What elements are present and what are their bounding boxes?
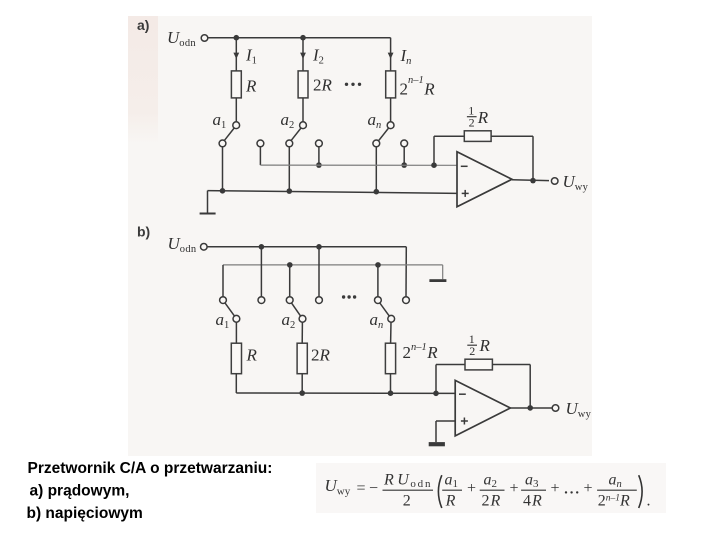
switch b2 throw left [286, 297, 293, 304]
svg-text:R: R [246, 346, 258, 365]
dots ellipsis (circuit b) [342, 295, 345, 298]
ground (circuit b top right) [429, 279, 446, 282]
switch bn throw left [375, 297, 382, 304]
svg-text:a): a) [137, 17, 149, 33]
wire b2 resistor to bus [301, 374, 303, 393]
switch b1 pole [233, 315, 240, 322]
node bn-bus [388, 390, 394, 396]
scan background [128, 16, 592, 456]
switch a1 pole contact [233, 122, 240, 129]
node a2-ground-bus [287, 188, 293, 194]
svg-text:+: + [551, 480, 560, 497]
fraction a1/R bar [442, 489, 462, 491]
node rail-branch2 [300, 35, 306, 41]
big close paren [639, 475, 642, 508]
switch b1 lever [225, 303, 235, 316]
switch a2 throw right [316, 140, 323, 147]
svg-text:=: = [357, 480, 366, 497]
svg-text:2: 2 [469, 115, 475, 129]
wire branch2 to switch [302, 98, 304, 122]
op-amp (circuit b) [455, 380, 510, 436]
wire summing bus (circuit b) [236, 392, 455, 394]
terminal Uwy (b) [552, 405, 559, 412]
resistor 2^(n-1)R (branchN b) [385, 343, 395, 374]
arrow In [388, 53, 394, 59]
wire bn pole to resistor [390, 322, 392, 343]
wire output (b) [510, 407, 552, 409]
big open paren [438, 475, 441, 508]
svg-text:+: + [584, 480, 593, 497]
switch bn pole [388, 315, 395, 322]
switch an throw right [401, 140, 408, 147]
wire branchN to switch [390, 98, 392, 122]
node a1-ground-bus [220, 188, 226, 194]
plus marker (b) [461, 420, 468, 422]
wire b1 resistor to bus [235, 374, 237, 393]
ground (op-amp b) [429, 442, 445, 446]
minus marker (a) [461, 165, 468, 167]
wire branch1 drop [235, 38, 237, 71]
node rail2-bn [375, 262, 381, 268]
terminal Uodn (circuit b) [201, 244, 208, 251]
svg-text:−: − [369, 480, 378, 497]
switch b1 throw left [220, 297, 227, 304]
switch a1 throw left [219, 140, 226, 147]
wire ground rail (circuit b) [223, 264, 443, 266]
resistor half-R feedback (b) [465, 359, 492, 370]
wire a1 right throw stub [259, 147, 261, 166]
arrow I2 [300, 53, 306, 59]
fraction a2/2R bar [480, 489, 505, 491]
wire plus input drop (b) [435, 421, 437, 442]
node feedback-output (b) [527, 405, 533, 411]
switch b2 throw right [316, 297, 323, 304]
node b2-bus [299, 390, 305, 396]
node rail2-b2 [287, 262, 293, 268]
switch bn throw right [403, 297, 410, 304]
resistor R (branch1 a) [231, 71, 241, 98]
switch b1 throw right [258, 297, 265, 304]
wire a2 throw to ground bus [288, 147, 290, 192]
wire branchN drop [390, 38, 392, 71]
svg-text:2R: 2R [482, 493, 502, 510]
arrow I1 [233, 53, 239, 59]
svg-text:.: . [647, 493, 651, 510]
svg-text:2R: 2R [311, 346, 331, 365]
svg-text:2R: 2R [313, 76, 333, 95]
wire feedback right (b) [492, 364, 530, 366]
svg-text:R: R [479, 336, 491, 355]
svg-text:2: 2 [403, 493, 411, 510]
wire a1 throw to ground bus [222, 147, 224, 191]
fraction RUodn/2 bar [383, 489, 434, 491]
node an-summing-bus [401, 162, 407, 168]
switch bn lever [380, 303, 390, 316]
switch a2 throw left [286, 140, 293, 147]
switch a1 throw right [257, 140, 264, 147]
wire rail2 right drop to ground [442, 265, 444, 279]
wire bn resistor to bus [390, 374, 392, 394]
node feedback-output (a) [530, 178, 536, 184]
dots ellipsis (circuit a) [345, 83, 348, 86]
switch a2 lever [291, 128, 301, 141]
wire branch2 drop [302, 38, 304, 71]
svg-text:+: + [467, 480, 476, 497]
wire an throw to ground bus [375, 147, 377, 192]
wire b2 left throw stub up [289, 265, 291, 297]
wire bn left throw stub up [377, 265, 379, 297]
wire b2 pole to resistor [301, 322, 303, 343]
wire output (a) [512, 179, 549, 182]
wire ground bus (circuit a) [208, 191, 457, 194]
node rail-branch1 [234, 35, 240, 41]
terminal Uwy (a) [551, 178, 558, 185]
wire feedback down (a) [532, 136, 534, 180]
wire plus input (b) [436, 420, 455, 422]
ellipsis dots [565, 491, 567, 493]
wire a2 right throw stub [318, 147, 320, 166]
plus marker (a) [462, 192, 469, 194]
svg-text:+: + [510, 480, 519, 497]
switch a1 lever [224, 128, 234, 141]
wire rail1 right drop to an throw [405, 247, 407, 297]
svg-text:b) napięciowym: b) napięciowym [27, 505, 143, 522]
node feedback tap a [431, 162, 437, 168]
wire an right throw stub [403, 147, 405, 166]
wire feedback left (b) [436, 364, 465, 366]
node feedback tap b [433, 391, 439, 397]
switch b2 pole [299, 315, 306, 322]
wire b2 right throw stub up [318, 247, 320, 297]
svg-text:R: R [445, 493, 456, 510]
node an-ground-bus [374, 189, 380, 195]
resistor 2^(n-1)R (branchN a) [386, 71, 396, 98]
resistor R (branch1 b) [231, 343, 241, 374]
switch an lever [379, 128, 389, 141]
wire feedback right (a) [491, 135, 533, 137]
terminal Uodn (circuit a) [201, 35, 208, 42]
resistor half-R feedback (a) [464, 131, 491, 142]
wire Uodn rail (circuit b) [207, 246, 406, 248]
ground (circuit a) [200, 213, 216, 215]
switch a2 pole contact [300, 122, 307, 129]
svg-text:R: R [245, 77, 257, 96]
wire rail2 left drop to a1 throw [222, 265, 224, 297]
node a2-summing-bus [316, 162, 322, 168]
wire summing bus (circuit a) [260, 164, 457, 166]
svg-text:b): b) [137, 224, 150, 240]
wire b1 pole to resistor [235, 322, 237, 343]
resistor 2R (branch2 a) [298, 71, 308, 98]
switch b2 lever [291, 303, 300, 316]
wire feedback down (b) [529, 365, 531, 408]
svg-text:Przetwornik C/A o przetwarzani: Przetwornik C/A o przetwarzaniu: [28, 460, 273, 477]
switch an throw left [373, 140, 380, 147]
resistor 2R (branch2 b) [297, 343, 307, 374]
svg-text:2: 2 [469, 344, 475, 358]
wire branch1 to switch [235, 98, 237, 122]
wire top rail (circuit a) [208, 37, 391, 39]
svg-text:a) prądowym,: a) prądowym, [30, 483, 130, 500]
fraction an bar [597, 489, 637, 491]
wire feedback up (a) [433, 136, 435, 165]
fraction a3/4R bar [521, 489, 546, 491]
wire b1 right throw stub up [260, 247, 262, 297]
wire ground drop (circuit a) [207, 191, 209, 214]
op-amp (circuit a) [457, 152, 512, 207]
switch an pole contact [387, 122, 394, 129]
node rail1-b1 [259, 244, 265, 250]
svg-text:4R: 4R [523, 493, 543, 510]
svg-text:R: R [477, 108, 489, 127]
wire feedback left (a) [434, 135, 464, 137]
minus marker (b) [459, 393, 466, 395]
node rail1-b2 [316, 244, 322, 250]
wire feedback up (b) [435, 365, 437, 394]
